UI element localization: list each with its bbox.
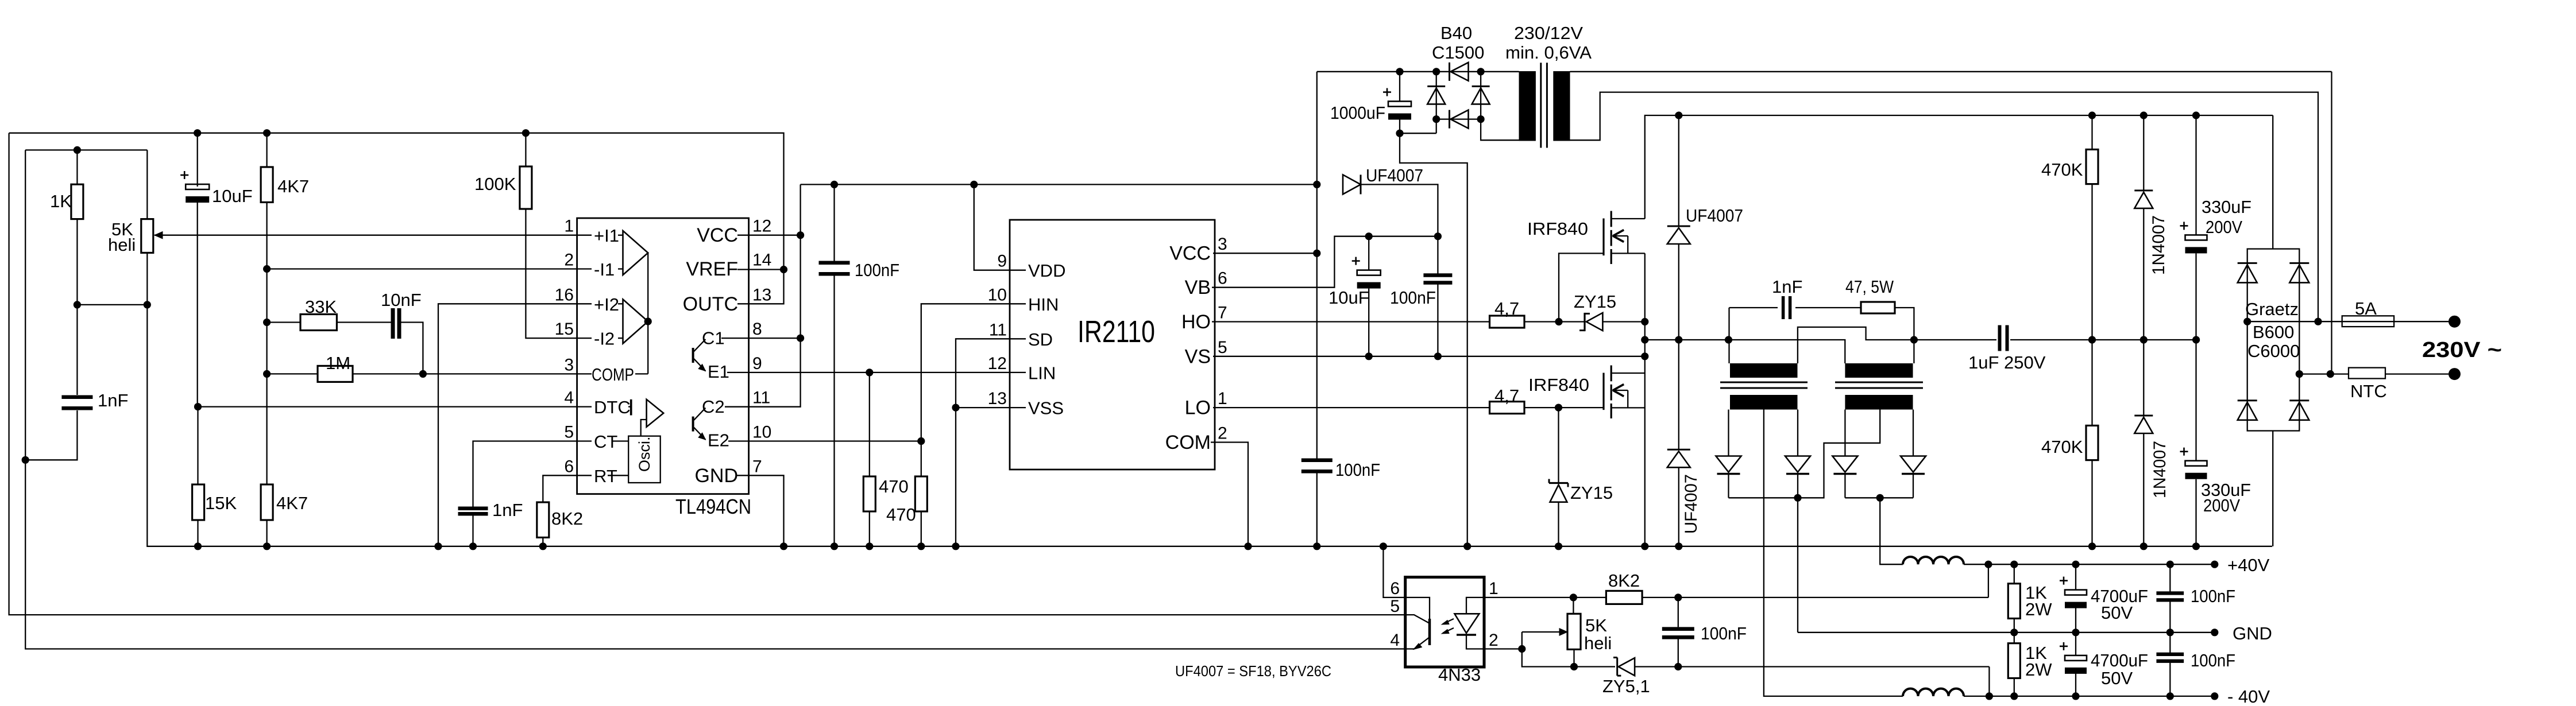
- svg-text:100nF: 100nF: [2191, 650, 2235, 670]
- svg-text:5K: 5K: [1585, 615, 1607, 635]
- svg-text:heli: heli: [108, 235, 136, 255]
- svg-text:COM: COM: [1165, 432, 1211, 453]
- svg-text:4: 4: [564, 389, 574, 408]
- svg-text:4K7: 4K7: [277, 176, 309, 196]
- svg-text:13: 13: [988, 389, 1007, 408]
- svg-text:GND: GND: [694, 465, 738, 487]
- svg-text:6: 6: [564, 457, 574, 476]
- svg-text:100nF: 100nF: [1701, 623, 1747, 643]
- svg-text:7: 7: [1218, 304, 1227, 323]
- svg-text:Osci.: Osci.: [636, 436, 653, 472]
- svg-text:TL494CN: TL494CN: [675, 495, 751, 518]
- svg-text:- 40V: - 40V: [2227, 686, 2270, 703]
- svg-text:DTC: DTC: [594, 397, 631, 417]
- svg-text:Graetz: Graetz: [2245, 299, 2299, 319]
- svg-text:4K7: 4K7: [276, 493, 308, 513]
- svg-text:+I1: +I1: [594, 226, 619, 246]
- svg-text:12: 12: [988, 354, 1007, 373]
- svg-text:ZY5,1: ZY5,1: [1602, 676, 1650, 696]
- svg-text:IR2110: IR2110: [1077, 315, 1155, 349]
- svg-text:4N33: 4N33: [1438, 665, 1481, 685]
- svg-text:IRF840: IRF840: [1528, 375, 1589, 395]
- svg-text:200V: 200V: [2206, 217, 2242, 237]
- svg-text:2: 2: [1489, 631, 1499, 650]
- svg-text:5A: 5A: [2355, 298, 2377, 319]
- svg-text:13: 13: [752, 285, 771, 304]
- svg-text:4: 4: [1390, 631, 1400, 650]
- svg-text:8: 8: [752, 320, 762, 339]
- svg-text:100nF: 100nF: [1335, 460, 1380, 480]
- svg-text:-I2: -I2: [594, 329, 615, 349]
- svg-text:B40: B40: [1440, 23, 1472, 43]
- svg-text:1uF 250V: 1uF 250V: [1968, 352, 2046, 373]
- svg-text:1: 1: [564, 217, 574, 236]
- svg-text:E2: E2: [708, 430, 729, 451]
- svg-text:200V: 200V: [2203, 495, 2240, 515]
- svg-text:7: 7: [752, 457, 762, 476]
- svg-text:VREF: VREF: [686, 258, 738, 280]
- svg-text:GND: GND: [2233, 623, 2272, 643]
- svg-text:15K: 15K: [205, 493, 237, 513]
- svg-text:min. 0,6VA: min. 0,6VA: [1505, 42, 1592, 63]
- svg-text:2: 2: [1218, 424, 1227, 443]
- svg-text:C1: C1: [702, 328, 725, 348]
- svg-text:+I2: +I2: [594, 294, 619, 315]
- svg-text:10uF: 10uF: [1328, 288, 1369, 308]
- svg-text:ZY15: ZY15: [1574, 292, 1616, 312]
- svg-text:10nF: 10nF: [381, 290, 422, 310]
- svg-text:-I1: -I1: [594, 259, 615, 280]
- svg-text:11: 11: [752, 389, 770, 408]
- svg-text:C2: C2: [702, 397, 725, 417]
- svg-text:VCC: VCC: [697, 224, 738, 246]
- svg-text:470: 470: [879, 476, 909, 496]
- svg-text:VDD: VDD: [1028, 261, 1065, 281]
- svg-text:1000uF: 1000uF: [1330, 103, 1385, 123]
- svg-text:470: 470: [886, 505, 916, 525]
- svg-text:VCC: VCC: [1169, 243, 1211, 265]
- svg-text:UF4007: UF4007: [1682, 474, 1701, 534]
- svg-text:100nF: 100nF: [2191, 586, 2235, 606]
- svg-text:2: 2: [564, 251, 574, 270]
- svg-text:VSS: VSS: [1028, 398, 1064, 418]
- svg-text:UF4007 = SF18, BYV26C: UF4007 = SF18, BYV26C: [1175, 662, 1331, 680]
- svg-text:HIN: HIN: [1028, 294, 1059, 315]
- svg-text:8K2: 8K2: [1608, 571, 1640, 591]
- svg-text:LO: LO: [1185, 397, 1211, 419]
- svg-text:10: 10: [752, 423, 771, 442]
- svg-text:+40V: +40V: [2227, 555, 2270, 575]
- svg-text:SD: SD: [1028, 329, 1053, 350]
- svg-text:4,7: 4,7: [1494, 386, 1519, 406]
- svg-text:100K: 100K: [474, 174, 516, 194]
- svg-text:VB: VB: [1185, 277, 1211, 298]
- svg-text:NTC: NTC: [2350, 381, 2387, 401]
- svg-text:230V ~: 230V ~: [2422, 338, 2502, 362]
- svg-text:heli: heli: [1584, 633, 1612, 653]
- svg-text:1M: 1M: [326, 353, 350, 373]
- svg-text:50V: 50V: [2101, 668, 2133, 688]
- svg-text:5: 5: [564, 423, 574, 442]
- svg-text:2W: 2W: [2025, 660, 2052, 680]
- svg-text:C6000: C6000: [2247, 341, 2300, 361]
- svg-text:VS: VS: [1185, 346, 1211, 367]
- svg-text:4700uF: 4700uF: [2091, 650, 2148, 670]
- svg-text:330uF: 330uF: [2202, 197, 2251, 217]
- svg-text:IRF840: IRF840: [1527, 219, 1588, 239]
- svg-text:B600: B600: [2253, 322, 2294, 342]
- svg-text:16: 16: [555, 285, 574, 304]
- svg-text:1nF: 1nF: [492, 500, 523, 520]
- svg-text:9: 9: [752, 354, 762, 373]
- svg-text:50V: 50V: [2101, 603, 2133, 623]
- svg-text:LIN: LIN: [1028, 363, 1056, 383]
- svg-text:3: 3: [564, 355, 574, 374]
- svg-text:14: 14: [752, 251, 771, 270]
- svg-text:1N4007: 1N4007: [2149, 215, 2168, 275]
- svg-text:E1: E1: [708, 362, 729, 382]
- svg-text:11: 11: [989, 320, 1007, 339]
- svg-text:8K2: 8K2: [551, 509, 583, 529]
- svg-text:1nF: 1nF: [98, 390, 128, 410]
- svg-text:6: 6: [1218, 269, 1227, 288]
- svg-text:1nF: 1nF: [1772, 277, 1802, 297]
- svg-text:230/12V: 230/12V: [1514, 23, 1583, 43]
- svg-text:5: 5: [1218, 338, 1227, 357]
- svg-text:12: 12: [752, 217, 771, 236]
- svg-text:1: 1: [1218, 389, 1227, 408]
- svg-text:OUTC: OUTC: [683, 293, 738, 315]
- svg-text:1: 1: [1489, 579, 1499, 598]
- svg-text:UF4007: UF4007: [1366, 165, 1423, 185]
- svg-text:1N4007: 1N4007: [2150, 441, 2169, 498]
- svg-text:470K: 470K: [2041, 160, 2083, 180]
- svg-text:100nF: 100nF: [1390, 288, 1436, 308]
- svg-text:5: 5: [1390, 597, 1400, 616]
- svg-text:HO: HO: [1181, 311, 1211, 333]
- svg-text:UF4007: UF4007: [1686, 205, 1743, 226]
- svg-text:3: 3: [1218, 235, 1227, 254]
- svg-text:33K: 33K: [305, 297, 337, 317]
- svg-text:C1500: C1500: [1432, 42, 1484, 63]
- svg-text:1K: 1K: [50, 191, 72, 211]
- svg-text:2W: 2W: [2025, 599, 2052, 619]
- svg-text:ZY15: ZY15: [1570, 483, 1613, 503]
- svg-text:4,7: 4,7: [1494, 298, 1519, 319]
- svg-text:COMP: COMP: [592, 364, 634, 385]
- svg-text:47, 5W: 47, 5W: [1845, 277, 1894, 297]
- svg-text:10: 10: [988, 285, 1007, 304]
- svg-text:15: 15: [555, 320, 574, 339]
- svg-text:470K: 470K: [2041, 437, 2083, 457]
- svg-text:6: 6: [1390, 579, 1400, 598]
- svg-text:9: 9: [997, 252, 1007, 271]
- svg-text:100nF: 100nF: [855, 260, 899, 280]
- svg-text:10uF: 10uF: [212, 186, 253, 206]
